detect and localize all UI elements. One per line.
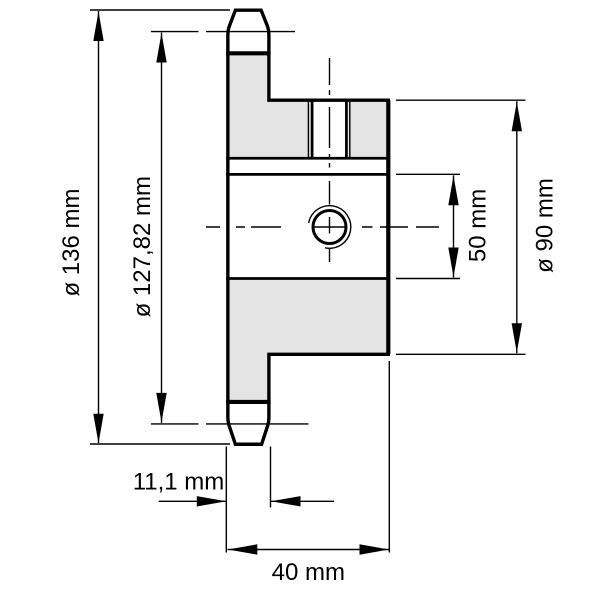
svg-text:ø 90 mm: ø 90 mm xyxy=(532,178,559,273)
svg-text:11,1 mm: 11,1 mm xyxy=(133,469,225,496)
svg-text:ø 136 mm: ø 136 mm xyxy=(58,188,85,296)
svg-text:50 mm: 50 mm xyxy=(465,189,492,262)
svg-text:40 mm: 40 mm xyxy=(272,559,345,586)
svg-text:ø 127,82 mm: ø 127,82 mm xyxy=(129,176,156,317)
